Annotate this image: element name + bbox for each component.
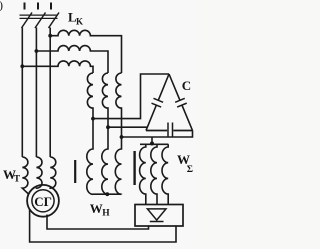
phase terminal tick 1 [24,3,26,10]
winding W_H lower section column 3 [115,148,121,194]
winding W_H lower section column 1 [87,148,93,194]
node tap column 3 [120,135,124,139]
capacitor delta left side (with gap) [146,74,169,131]
switch blade slash 2 [35,13,46,29]
winding W_H lower section column 2 [102,148,108,194]
generator SG outer circle [27,185,59,217]
winding W_T phase 2 [36,157,42,188]
winding W_T phase 3 [50,157,56,188]
diode symbol [147,209,166,222]
capacitor C3 plates (bottom) [168,123,173,138]
wire phase line 3 [49,28,51,158]
switch QS coupling bar (double line) [20,15,58,18]
capacitor C2 plates (right slant) [175,98,187,107]
wire tap1 to delta apex [93,74,169,119]
inductor L_K phase 2 (middle) with wire to middle column 2 [36,46,108,73]
svg-text:): ) [0,0,3,12]
winding W_Sigma coil 2 [151,144,157,204]
winding W_Sigma coil 1 [140,144,146,204]
wire phase line 2 [35,28,37,158]
node W_Sigma feed [150,142,154,146]
inductor L_K phase 1 (top) with wire to middle column 3 [50,30,121,73]
node tap phase 3 [48,34,52,38]
inductor L_K phase 3 (bottom) with wire to middle column 1 [22,61,93,73]
switch blade slash 1 [22,13,33,29]
generator SG inner circle [32,190,54,212]
wire field upper (generator to rectifier) [47,215,149,230]
winding upper section column 3 [116,73,122,148]
node tap phase 1 [20,64,24,68]
winding upper section column 2 [102,73,108,148]
svg-text:C: C [182,78,191,93]
wire tap2 to delta left vertex [108,126,148,128]
switch blade slash 3 [49,13,60,29]
core bar left (W_T / W_H) [74,160,76,183]
wire tap3 to delta right vertex (wire A) [122,131,193,138]
wire phase line 1 (left) [21,28,23,158]
node tap column 2 [106,125,110,129]
capacitor delta base [146,130,193,132]
capacitor delta right side (with gap) [169,74,193,131]
winding W_Sigma coil 3 [162,144,168,204]
svg-text:H: H [102,209,110,219]
capacitor C1 plates (left slant) [152,98,164,107]
node W_H star point [105,192,109,196]
node tap column 1 [91,117,95,121]
winding upper section column 1 [87,73,93,148]
svg-text:T: T [14,175,21,185]
rectifier box [135,205,183,227]
svg-text:K: K [76,17,83,27]
wire field lower (generator to rectifier) [30,210,176,243]
phase terminal tick 2 [37,3,39,10]
core bar right (W_H / W_Sigma) [133,151,135,185]
wire W_Sigma top bus [140,143,168,145]
svg-text:СГ: СГ [34,194,52,209]
svg-text:W: W [90,201,103,216]
wire W_Sigma feed from wire A [151,137,153,144]
phase terminal tick 3 [50,3,52,10]
wire W_H star bottom [93,193,122,195]
svg-text:Σ: Σ [187,165,193,175]
node tap phase 2 [35,49,39,53]
winding W_T phase 1 [22,157,28,194]
